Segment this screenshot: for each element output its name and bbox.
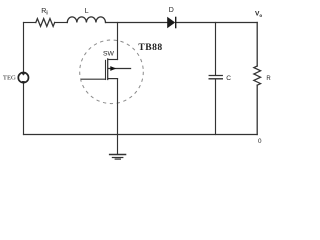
- svg-text:D: D: [169, 7, 174, 14]
- svg-text:0: 0: [258, 138, 262, 145]
- svg-text:TB88: TB88: [138, 42, 162, 53]
- svg-text:TEG: TEG: [3, 74, 16, 81]
- svg-text:R: R: [266, 76, 271, 82]
- svg-text:C: C: [226, 75, 231, 82]
- svg-text:SW: SW: [103, 50, 115, 57]
- svg-text:L: L: [85, 8, 89, 15]
